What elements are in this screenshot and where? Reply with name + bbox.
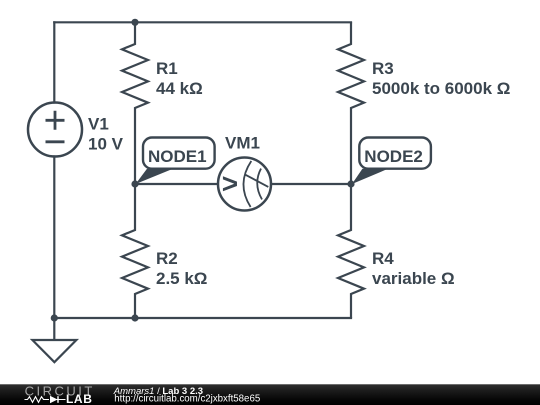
svg-text:10 V: 10 V: [88, 135, 124, 154]
node NODE2 flag: [352, 138, 431, 185]
svg-text:NODE1: NODE1: [148, 147, 207, 166]
svg-text:http://circuitlab.com/c2jxbxft: http://circuitlab.com/c2jxbxft58e65: [114, 394, 260, 405]
svg-text:V1: V1: [88, 115, 109, 134]
svg-text:VM1: VM1: [225, 134, 260, 153]
VM1 meter scale arc outer: [243, 161, 251, 207]
wire left V1 top lead: [53, 22, 55, 102]
wire top from V1 to R3: [54, 21, 351, 23]
label R3 value: [372, 59, 510, 98]
svg-text:R3: R3: [372, 59, 394, 78]
wire middle NODE1 to VM1: [135, 183, 217, 185]
svg-text:44 kΩ: 44 kΩ: [156, 79, 203, 98]
svg-text:NODE2: NODE2: [364, 147, 423, 166]
svg-text:LAB: LAB: [66, 392, 92, 405]
resistor R4: [338, 184, 364, 318]
ground: [32, 318, 76, 362]
svg-text:R2: R2: [156, 249, 178, 268]
node NODE1 flag: [136, 138, 215, 185]
VM1 meter scale arc inner: [257, 169, 262, 200]
junction dot bottom of R2: [131, 314, 138, 321]
label V1 value: [88, 115, 124, 154]
voltage source V1: [28, 103, 82, 157]
svg-text:R1: R1: [156, 59, 178, 78]
ground triangle: [32, 340, 76, 362]
wire bottom rail: [54, 317, 351, 319]
V1 minus mark: [46, 140, 65, 143]
label VM1: [225, 134, 260, 153]
svg-text:R4: R4: [372, 249, 394, 268]
V1 plus mark: [46, 111, 65, 130]
junction dot NODE1: [131, 180, 138, 187]
label R1 value: [156, 59, 203, 98]
resistor R2: [122, 184, 148, 318]
junction dot NODE2: [347, 180, 354, 187]
CircuitLab logo diode arrow: [50, 396, 58, 403]
svg-text:5000k to 6000k Ω: 5000k to 6000k Ω: [372, 79, 510, 98]
wire left V1 bottom lead to ground rail: [53, 157, 55, 319]
CircuitLab logo resistor-diode line: [25, 396, 66, 403]
wire middle VM1 to NODE2: [272, 183, 351, 185]
footer bar: [0, 384, 540, 405]
ground stem wire: [53, 318, 55, 340]
label R2 value: [156, 249, 207, 288]
svg-text:>: >: [222, 168, 238, 199]
VM1 meter needle: [245, 174, 269, 187]
resistor R3: [338, 22, 364, 184]
junction dot at top of R1: [131, 19, 138, 26]
voltmeter VM1: [218, 158, 271, 211]
label R4 value: [372, 249, 455, 288]
svg-text:2.5 kΩ: 2.5 kΩ: [156, 269, 207, 288]
junction dot ground rail left: [51, 314, 58, 321]
svg-text:variable Ω: variable Ω: [372, 269, 455, 288]
resistor R1: [122, 22, 148, 184]
